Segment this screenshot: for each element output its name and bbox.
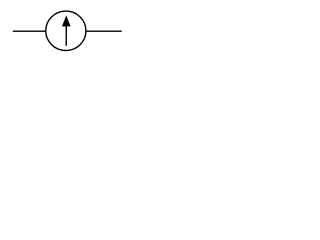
arrow shaft (65, 24, 67, 46)
current source circle (46, 11, 86, 50)
wire right lead (85, 30, 121, 32)
current source I1 (0, 0, 128, 60)
arrow head (62, 15, 71, 26)
wire left lead (13, 30, 46, 32)
